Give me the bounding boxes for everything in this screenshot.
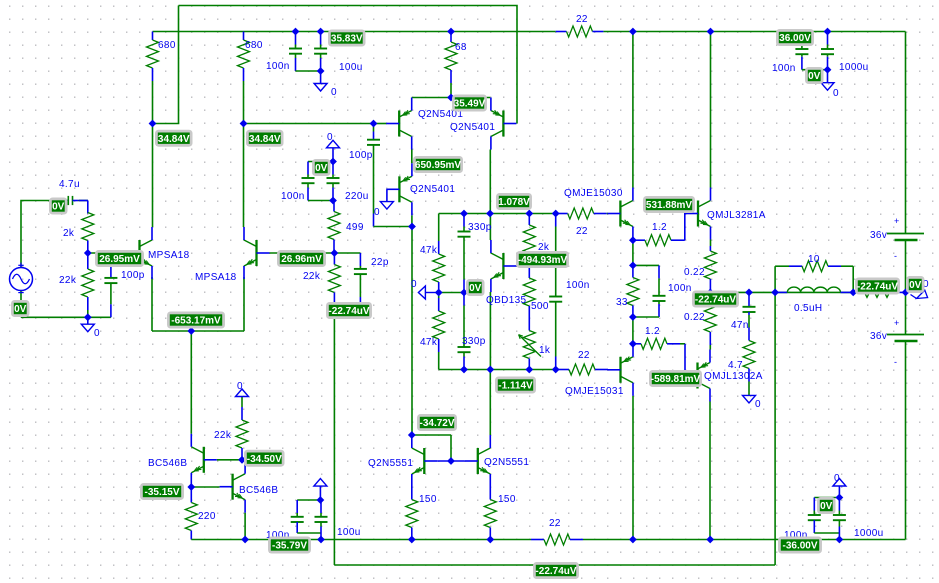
svg-text:33: 33 [616,297,628,308]
svg-text:36v: 36v [870,331,887,342]
svg-text:-589.81mV: -589.81mV [651,374,701,385]
svg-text:-22.74uV: -22.74uV [328,306,369,317]
svg-text:26.95mV: 26.95mV [99,254,140,265]
svg-text:0.22: 0.22 [684,267,705,278]
svg-text:0: 0 [374,207,380,218]
svg-text:100n: 100n [266,61,290,72]
svg-text:35.49V: 35.49V [454,99,486,110]
svg-text:QMJL3281A: QMJL3281A [707,210,766,221]
svg-text:36.00V: 36.00V [779,33,811,44]
svg-text:+: + [894,318,899,328]
svg-text:1000u: 1000u [839,62,869,73]
svg-text:100n: 100n [668,283,692,294]
svg-text:22k: 22k [59,275,77,286]
svg-text:330p: 330p [468,222,492,233]
svg-text:1k: 1k [539,345,551,356]
svg-text:-494.93mV: -494.93mV [518,255,568,266]
svg-text:1.2: 1.2 [652,222,667,233]
svg-text:150: 150 [419,494,437,505]
svg-text:-: - [894,251,897,261]
svg-text:0V: 0V [52,202,65,213]
svg-text:0: 0 [833,88,839,99]
svg-text:QMJE15030: QMJE15030 [564,188,623,199]
svg-text:0V: 0V [909,280,922,291]
svg-text:QBD135: QBD135 [486,295,527,306]
svg-text:QMJE15031: QMJE15031 [565,386,624,397]
svg-text:0V: 0V [820,501,833,512]
svg-text:0: 0 [411,279,417,290]
svg-text:34.84V: 34.84V [158,134,190,145]
svg-text:22k: 22k [303,271,321,282]
svg-text:22: 22 [576,226,588,237]
svg-text:650.95mV: 650.95mV [415,160,461,171]
svg-text:35.83V: 35.83V [331,34,363,45]
svg-text:-: - [894,357,897,367]
svg-text:10: 10 [808,254,820,265]
svg-text:100u: 100u [337,527,361,538]
svg-text:MPSA18: MPSA18 [148,250,190,261]
svg-text:0V: 0V [315,163,328,174]
svg-text:-34.72V: -34.72V [419,418,454,429]
svg-text:34.84V: 34.84V [249,134,281,145]
svg-text:MPSA18: MPSA18 [195,272,237,283]
svg-text:100p: 100p [349,150,373,161]
svg-text:4.7u: 4.7u [59,179,80,190]
svg-text:0V: 0V [469,283,482,294]
svg-text:+: + [894,216,899,226]
svg-text:100n: 100n [772,63,796,74]
svg-text:1000u: 1000u [854,528,884,539]
svg-text:500: 500 [531,301,549,312]
svg-text:0: 0 [327,132,333,143]
svg-text:0: 0 [237,381,243,392]
svg-text:100p: 100p [121,270,145,281]
svg-text:47k: 47k [420,245,438,256]
svg-text:2k: 2k [63,228,75,239]
svg-text:QMJL1302A: QMJL1302A [704,371,763,382]
svg-text:-653.17mV: -653.17mV [171,316,221,327]
svg-text:-34.50V: -34.50V [247,454,282,465]
svg-text:330p: 330p [462,336,486,347]
svg-text:Q2N5401: Q2N5401 [450,122,495,133]
svg-text:1.2: 1.2 [645,326,660,337]
svg-text:0: 0 [94,328,100,339]
svg-text:22: 22 [578,350,590,361]
svg-text:100u: 100u [339,62,363,73]
svg-text:100n: 100n [566,280,590,291]
svg-text:-1.114V: -1.114V [498,381,533,392]
svg-text:BC546B: BC546B [148,458,187,469]
svg-text:36v: 36v [870,230,887,241]
svg-text:4.7: 4.7 [728,360,743,371]
svg-text:0: 0 [834,473,840,484]
svg-text:-35.79V: -35.79V [272,541,307,552]
svg-text:-36.00V: -36.00V [782,541,817,552]
svg-text:Q2N5401: Q2N5401 [410,184,455,195]
svg-text:531.88mV: 531.88mV [646,200,692,211]
svg-text:68: 68 [455,42,467,53]
svg-text:Q2N5551: Q2N5551 [368,458,413,469]
svg-text:680: 680 [245,40,263,51]
svg-text:22p: 22p [371,257,389,268]
svg-text:0: 0 [331,87,337,98]
svg-text:0: 0 [755,399,761,410]
svg-text:22: 22 [549,518,561,529]
svg-text:-35.15V: -35.15V [144,487,179,498]
svg-text:-22.74uV: -22.74uV [535,566,576,577]
svg-text:220u: 220u [345,191,369,202]
svg-text:0V: 0V [808,71,821,82]
svg-text:BC546B: BC546B [239,485,278,496]
svg-text:0V: 0V [14,304,27,315]
svg-text:680: 680 [158,40,176,51]
svg-text:47n: 47n [731,320,749,331]
svg-text:220: 220 [198,511,216,522]
svg-text:0.5uH: 0.5uH [794,303,822,314]
svg-text:Q2N5551: Q2N5551 [484,457,529,468]
svg-text:47k: 47k [420,337,438,348]
svg-text:22: 22 [576,14,588,25]
svg-text:100n: 100n [281,191,305,202]
svg-text:150: 150 [498,494,516,505]
svg-text:499: 499 [346,222,364,233]
svg-text:-22.74uV: -22.74uV [857,282,898,293]
svg-text:-22.74uV: -22.74uV [695,295,736,306]
svg-text:26.96mV: 26.96mV [281,254,322,265]
svg-text:1.078V: 1.078V [498,197,530,208]
svg-text:22k: 22k [214,430,232,441]
svg-text:0.22: 0.22 [684,312,705,323]
